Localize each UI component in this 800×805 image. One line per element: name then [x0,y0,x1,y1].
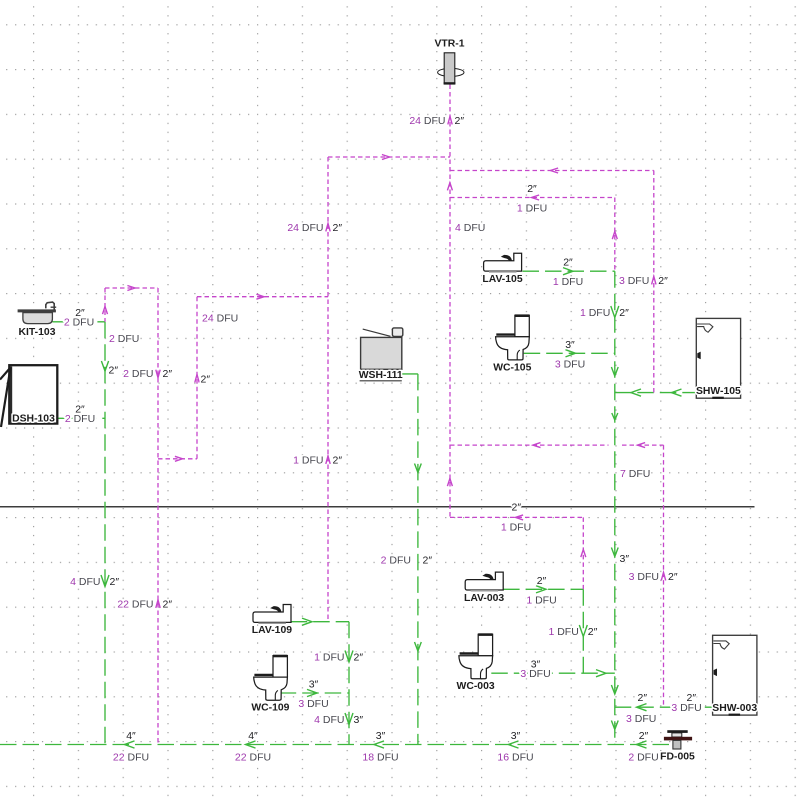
svg-text:2 DFU: 2 DFU [381,555,411,567]
svg-text:FD-005: FD-005 [660,751,695,762]
svg-text:2 DFU: 2 DFU [628,752,658,764]
svg-text:2 DFU: 2 DFU [109,333,139,345]
svg-text:3″: 3″ [309,679,319,691]
svg-text:2″: 2″ [354,652,364,664]
svg-text:VTR-1: VTR-1 [434,39,464,50]
svg-text:2″: 2″ [668,571,678,583]
svg-text:LAV-003: LAV-003 [464,593,504,604]
svg-text:1 DFU: 1 DFU [548,626,578,638]
svg-text:2 DFU: 2 DFU [65,413,95,425]
svg-text:2″: 2″ [333,455,343,467]
svg-text:3″: 3″ [376,730,386,742]
svg-text:WC-109: WC-109 [251,703,289,714]
svg-text:3″: 3″ [620,553,630,565]
svg-text:1 DFU: 1 DFU [501,522,531,534]
svg-text:24 DFU: 24 DFU [409,115,445,127]
svg-text:2″: 2″ [563,257,573,269]
svg-text:WSH-111: WSH-111 [359,370,403,381]
svg-text:1 DFU: 1 DFU [553,276,583,288]
svg-text:3 DFU: 3 DFU [629,571,659,583]
svg-text:2″: 2″ [658,275,668,287]
svg-text:3 DFU: 3 DFU [626,713,656,725]
svg-text:4″: 4″ [126,730,136,742]
svg-text:LAV-105: LAV-105 [482,274,522,285]
svg-text:3″: 3″ [565,339,575,351]
svg-text:2 DFU: 2 DFU [64,316,94,328]
svg-text:2″: 2″ [163,599,173,611]
svg-text:KIT-103: KIT-103 [19,327,56,338]
svg-text:4 DFU: 4 DFU [314,714,344,726]
svg-text:2″: 2″ [455,115,465,127]
svg-text:WC-105: WC-105 [493,362,531,373]
svg-text:1 DFU: 1 DFU [517,203,547,215]
svg-text:3 DFU: 3 DFU [298,698,328,710]
svg-text:3″: 3″ [354,714,364,726]
svg-text:2″: 2″ [527,183,537,195]
svg-text:16 DFU: 16 DFU [497,752,533,764]
svg-text:1 DFU: 1 DFU [580,307,610,319]
svg-text:SHW-003: SHW-003 [712,703,757,714]
svg-text:SHW-105: SHW-105 [696,386,741,397]
svg-text:2″: 2″ [333,222,343,234]
svg-text:2″: 2″ [588,626,598,638]
svg-text:2″: 2″ [423,555,433,567]
svg-text:4 DFU: 4 DFU [70,576,100,588]
svg-text:22 DFU: 22 DFU [235,752,271,764]
svg-text:22 DFU: 22 DFU [113,752,149,764]
svg-text:3 DFU: 3 DFU [671,702,701,714]
svg-text:2″: 2″ [638,692,648,704]
svg-text:3 DFU: 3 DFU [619,275,649,287]
svg-text:3″: 3″ [511,730,521,742]
svg-text:2″: 2″ [639,730,649,742]
svg-text:1 DFU: 1 DFU [293,455,323,467]
svg-text:22 DFU: 22 DFU [117,599,153,611]
svg-text:2″: 2″ [512,502,522,514]
svg-text:2″: 2″ [619,307,629,319]
svg-text:2″: 2″ [537,575,547,587]
svg-text:1 DFU: 1 DFU [526,594,556,606]
svg-text:2″: 2″ [163,368,173,380]
svg-text:2″: 2″ [201,374,211,386]
svg-text:24 DFU: 24 DFU [287,222,323,234]
svg-text:2 DFU: 2 DFU [123,368,153,380]
svg-text:4 DFU: 4 DFU [455,222,485,234]
svg-text:3 DFU: 3 DFU [520,668,550,680]
svg-text:3 DFU: 3 DFU [555,358,585,370]
svg-text:LAV-109: LAV-109 [252,625,292,636]
svg-text:7 DFU: 7 DFU [620,468,650,480]
svg-text:DSH-103: DSH-103 [12,414,55,425]
svg-text:WC-003: WC-003 [457,681,495,692]
svg-text:4″: 4″ [248,730,258,742]
svg-text:1 DFU: 1 DFU [314,652,344,664]
svg-text:18 DFU: 18 DFU [362,752,398,764]
svg-text:2″: 2″ [110,576,120,588]
svg-text:24 DFU: 24 DFU [202,313,238,325]
svg-text:2″: 2″ [109,365,119,377]
